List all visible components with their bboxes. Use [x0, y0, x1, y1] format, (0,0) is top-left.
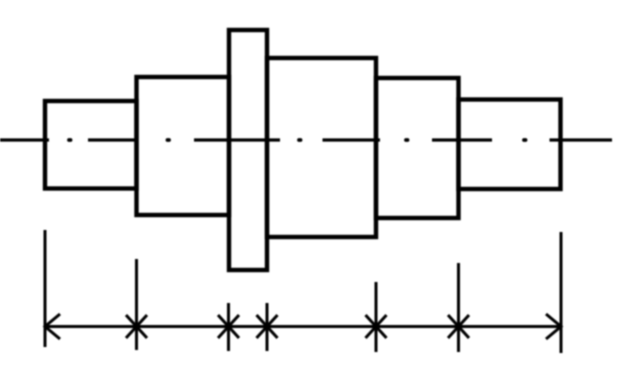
- centerline dash 1: [0, 138, 49, 141]
- extension line 3 (flange left): [227, 303, 230, 351]
- shaft step 4: [376, 78, 459, 218]
- centerline dot 2: [168, 138, 170, 142]
- shaft step 5 (rightmost journal): [459, 100, 561, 190]
- extension line 2: [135, 259, 138, 350]
- shaft step 2: [137, 77, 230, 215]
- double-arrow tick at x=458.5: [448, 315, 469, 338]
- extension line 6: [457, 263, 460, 352]
- double-arrow tick at x=228.5: [218, 315, 239, 338]
- centerline dash 2: [88, 138, 137, 141]
- arrowhead left end: [45, 314, 60, 339]
- dimension line: [45, 325, 561, 328]
- centerline dot 5: [524, 138, 526, 142]
- centerline dot 3: [299, 138, 301, 142]
- double-arrow tick at x=267: [257, 315, 278, 338]
- flange (tall thin collar): [229, 30, 267, 270]
- shaft step 1 (leftmost journal): [45, 101, 137, 189]
- centerline dot 4: [406, 138, 408, 142]
- centerline dot 1: [69, 138, 71, 142]
- centerline dash 5: [432, 138, 492, 141]
- centerline dash 3: [194, 138, 280, 141]
- extension line 5: [375, 282, 378, 352]
- arrowhead right end: [546, 314, 561, 339]
- centerline dash 6: [550, 138, 613, 141]
- extension line 1 (left end): [44, 230, 47, 347]
- double-arrow tick at x=136: [126, 315, 147, 338]
- extension line 7 (right end): [560, 232, 563, 353]
- double-arrow tick at x=376: [366, 315, 387, 338]
- shaft step 3 (largest diameter): [267, 58, 376, 237]
- extension line 4 (flange right): [266, 303, 269, 351]
- centerline dash 4: [323, 138, 381, 141]
